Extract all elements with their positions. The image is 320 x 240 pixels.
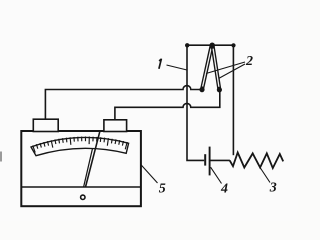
resistor R (3) zigzag <box>230 153 284 169</box>
wire: left post up, right to left slide-wire bottom (hop over vertical) <box>45 86 202 120</box>
leader 1 <box>167 65 188 70</box>
leader 4 <box>211 167 222 183</box>
meter scale band <box>31 137 129 155</box>
battery long plate <box>209 147 211 176</box>
wire: left vertical down to battery <box>187 45 204 160</box>
meter needle <box>84 149 93 188</box>
meter scale ticks <box>33 137 128 153</box>
leader 3 <box>260 168 270 183</box>
node: right bar bottom <box>217 87 222 92</box>
wire: right post up, right, up to right slide-wire bottom (hop over vertical) <box>115 90 220 120</box>
svg-text:3: 3 <box>269 180 277 195</box>
meter screw <box>81 195 85 199</box>
wire: battery to resistor <box>210 159 230 161</box>
svg-text:5: 5 <box>159 182 166 197</box>
meter M (galvanometer) body <box>21 131 141 206</box>
resistance wire bar right (2) <box>213 46 220 90</box>
svg-text:2: 2 <box>245 54 253 69</box>
meter terminal post left <box>33 119 58 131</box>
leader 2a (to left bar) <box>206 62 245 74</box>
node: left bar bottom <box>199 87 204 92</box>
wire: right vertical down to rheostat <box>232 45 234 155</box>
node: apex of slide wires <box>210 43 215 48</box>
wire: top horizontal <box>187 44 233 46</box>
node: top left corner <box>185 43 189 47</box>
battery B (4): short plate <box>204 154 206 165</box>
node: top right corner <box>231 43 235 47</box>
resistance wire bar left (2) <box>202 46 212 90</box>
leader 5 <box>141 165 158 183</box>
scan smudge left edge <box>0 152 2 162</box>
meter terminal post right <box>104 120 127 132</box>
meter divider line <box>21 186 141 188</box>
leader 2b (to right bar) <box>219 64 245 79</box>
label 1 <box>159 59 162 69</box>
